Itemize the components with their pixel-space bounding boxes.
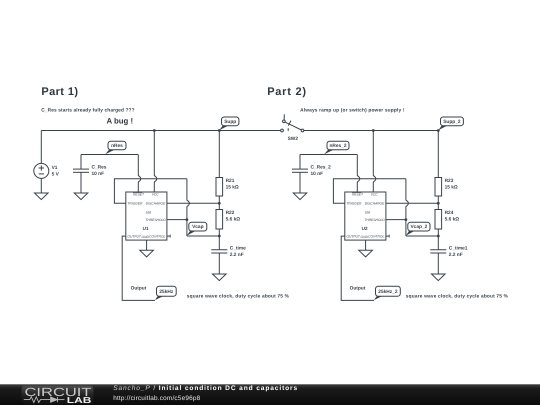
op-amp/timer IC U1 555 xyxy=(126,192,167,240)
wire DISCHARGE xyxy=(386,202,438,204)
svg-text:Part 2): Part 2) xyxy=(267,86,306,98)
switch SW2 xyxy=(281,114,304,142)
wire RESET vertical with hop xyxy=(357,155,360,193)
svg-text:10 nF: 10 nF xyxy=(311,171,324,177)
ground under V1 xyxy=(35,193,49,200)
svg-text:Vcap_2: Vcap_2 xyxy=(410,224,427,230)
svg-text:5.6 kΩ: 5.6 kΩ xyxy=(445,217,460,223)
wire to cap junction xyxy=(187,235,219,237)
svg-text:2.2 nF: 2.2 nF xyxy=(230,252,244,258)
wire R22 to C junction xyxy=(218,229,220,236)
svg-text:R23: R23 xyxy=(445,178,454,184)
svg-text:C_time1: C_time1 xyxy=(449,245,468,251)
svg-text:C_Res_2: C_Res_2 xyxy=(311,165,332,171)
wire TRIGGER net xyxy=(333,179,406,204)
wire TRIGGER net xyxy=(114,179,186,204)
svg-text:Output: Output xyxy=(131,286,147,292)
svg-text:25kHz_2: 25kHz_2 xyxy=(378,289,398,295)
pin CONTROL stub nc xyxy=(386,235,389,238)
svg-text:nRes: nRes xyxy=(111,143,123,149)
junction xyxy=(153,129,156,132)
ground under C_time xyxy=(213,274,227,281)
svg-text:555: 555 xyxy=(365,210,371,214)
capacitor C_time xyxy=(211,245,246,258)
svg-text:LAB: LAB xyxy=(67,395,92,405)
wire RESET vertical with hop xyxy=(138,155,141,193)
wire supply rail right xyxy=(304,130,438,132)
wire C_Res top lead xyxy=(299,155,301,170)
wire OUTPUT net xyxy=(122,236,155,300)
wire rail to R top xyxy=(218,131,220,178)
svg-text:nRes_2: nRes_2 xyxy=(329,143,346,149)
ground under chip xyxy=(140,250,154,257)
wire nRes net horizontal xyxy=(81,154,138,156)
svg-text:10 nF: 10 nF xyxy=(92,171,105,177)
wire C_Res bottom lead xyxy=(299,172,301,193)
wire C_Res bottom lead xyxy=(80,172,82,193)
svg-text:CONTROL: CONTROL xyxy=(149,235,165,239)
junction xyxy=(218,129,221,132)
flag Vcap_2 xyxy=(406,222,430,235)
resistor R24 xyxy=(435,210,459,230)
svg-text:THRESHOLD: THRESHOLD xyxy=(364,218,385,222)
svg-text:OUTPUT: OUTPUT xyxy=(346,235,361,239)
svg-text:square wave clock, duty cycle: square wave clock, duty cycle about 75 % xyxy=(406,293,509,299)
wire C_time to ground xyxy=(218,253,220,274)
junction xyxy=(437,129,440,132)
svg-text:U1: U1 xyxy=(143,226,149,231)
flag Vcap xyxy=(187,222,207,235)
svg-text:A bug !: A bug ! xyxy=(107,116,134,125)
capacitor C_time1 xyxy=(430,245,467,258)
capacitor C_Res_2 xyxy=(292,165,331,178)
resistor R21 xyxy=(216,178,239,197)
svg-text:R21: R21 xyxy=(226,178,235,184)
svg-text:TRIGGER: TRIGGER xyxy=(346,202,362,206)
pin CONTROL stub nc xyxy=(167,235,170,238)
wire rail to R top xyxy=(437,131,439,178)
flag Supp_2 xyxy=(438,117,463,130)
wire VCC vertical with hop xyxy=(373,131,376,193)
svg-text:5 V: 5 V xyxy=(52,171,60,177)
svg-text:U2: U2 xyxy=(362,226,368,231)
flag nRes_2 xyxy=(324,141,349,154)
svg-text:5.6 kΩ: 5.6 kΩ xyxy=(226,217,241,223)
flag nRes xyxy=(105,141,126,154)
wire OUTPUT net xyxy=(341,236,374,300)
svg-text:15 kΩ: 15 kΩ xyxy=(226,185,239,191)
svg-text:C_Res: C_Res xyxy=(92,165,107,171)
svg-text:Part 1): Part 1) xyxy=(41,86,78,98)
wire C_time to ground xyxy=(437,253,439,274)
wire GND pin xyxy=(365,240,367,250)
svg-text:C_time: C_time xyxy=(230,245,246,251)
flag 25kHz_2 xyxy=(374,286,400,300)
junction xyxy=(437,202,440,205)
junction xyxy=(218,202,221,205)
logo circuit symbol xyxy=(24,397,65,403)
svg-text:Vcap: Vcap xyxy=(192,224,204,230)
svg-text:Supp: Supp xyxy=(224,119,236,125)
wire THRESHOLD xyxy=(386,219,406,221)
flag Supp xyxy=(219,117,239,130)
wire junction to C_time xyxy=(218,236,220,250)
wire C_Res top lead xyxy=(80,155,82,170)
wire supply rail left xyxy=(41,130,280,132)
junction xyxy=(405,218,408,221)
svg-text:http://circuitlab.com/c5e96p8: http://circuitlab.com/c5e96p8 xyxy=(113,395,200,402)
flag 25kHz xyxy=(155,286,176,300)
ground under C_Res_2 xyxy=(293,193,307,200)
resistor R22 xyxy=(216,210,240,230)
svg-text:25kHz: 25kHz xyxy=(159,289,173,295)
svg-text:TRIGGER: TRIGGER xyxy=(127,202,143,206)
capacitor C_Res xyxy=(73,165,107,178)
wire link vertical with hop over discharge xyxy=(406,179,409,236)
svg-text:V1: V1 xyxy=(52,165,58,171)
ground under C_Res xyxy=(74,193,88,200)
wire nRes net horizontal xyxy=(300,154,357,156)
svg-text:square wave clock, duty cycle: square wave clock, duty cycle about 75 % xyxy=(187,293,290,299)
svg-text:RESET: RESET xyxy=(133,193,145,197)
svg-text:VCC: VCC xyxy=(371,193,379,197)
svg-text:OUTPUT: OUTPUT xyxy=(127,235,142,239)
svg-text:Output: Output xyxy=(350,286,366,292)
svg-text:Sancho_P / Initial condition D: Sancho_P / Initial condition DC and capa… xyxy=(113,385,298,392)
svg-text:DISCHARGE: DISCHARGE xyxy=(146,202,166,206)
wire R21-R22 xyxy=(437,196,439,210)
junction xyxy=(372,129,375,132)
svg-text:R24: R24 xyxy=(445,210,454,216)
svg-text:R22: R22 xyxy=(226,210,235,216)
junction xyxy=(437,235,440,238)
ground under chip xyxy=(359,250,373,257)
wire R21-R22 xyxy=(218,196,220,210)
ground under C_time xyxy=(432,274,446,281)
voltage source V1 5V xyxy=(34,131,60,194)
wire DISCHARGE xyxy=(167,202,219,204)
svg-text:Always ramp up (or switch) pow: Always ramp up (or switch) power supply … xyxy=(300,107,405,113)
op-amp/timer IC U2 555 xyxy=(345,192,386,240)
junction xyxy=(218,235,221,238)
wire VCC vertical with hop xyxy=(154,131,157,193)
svg-text:555: 555 xyxy=(146,210,152,214)
wire link vertical with hop over discharge xyxy=(187,179,190,236)
wire THRESHOLD xyxy=(167,219,187,221)
svg-text:THRESHOLD: THRESHOLD xyxy=(145,218,166,222)
svg-text:DISCHARGE: DISCHARGE xyxy=(365,202,385,206)
resistor R23 xyxy=(435,178,458,197)
wire to cap junction xyxy=(406,235,438,237)
wire GND pin xyxy=(146,240,148,250)
wire junction to C_time xyxy=(437,236,439,250)
svg-text:2.2 nF: 2.2 nF xyxy=(449,252,463,258)
svg-text:RESET: RESET xyxy=(352,193,364,197)
wire R22 to C junction xyxy=(437,229,439,236)
svg-text:VCC: VCC xyxy=(152,193,160,197)
svg-text:CONTROL: CONTROL xyxy=(368,235,384,239)
svg-text:C_Res starts already fully cha: C_Res starts already fully charged ??? xyxy=(41,107,134,113)
svg-text:Supp_2: Supp_2 xyxy=(443,119,461,125)
junction xyxy=(186,218,189,221)
svg-text:15 kΩ: 15 kΩ xyxy=(445,185,458,191)
svg-text:SW2: SW2 xyxy=(288,136,299,142)
